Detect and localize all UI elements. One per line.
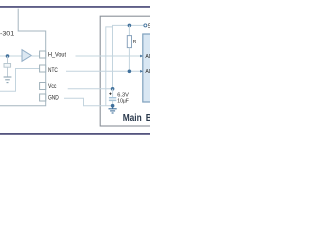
microcontroller U2 — [143, 34, 155, 102]
wire: op-amp input — [0, 55, 22, 57]
svg-text:Main: Main — [123, 113, 142, 124]
svg-text:NTC: NTC — [48, 68, 58, 74]
cap plate top — [109, 97, 116, 98]
svg-text:5V: 5V — [148, 23, 150, 30]
op-amp U1 triangle — [22, 50, 31, 62]
svg-text:R: R — [133, 39, 137, 45]
svg-text:AD: AD — [145, 54, 150, 60]
svg-text:H_Vout: H_Vout — [48, 53, 66, 59]
5V terminal circle — [144, 24, 147, 27]
sensor module box P-301 — [0, 9, 46, 106]
svg-text:10µF: 10µF — [117, 98, 129, 104]
svg-text:P-301: P-301 — [0, 30, 15, 37]
bottom horizontal rule — [0, 133, 150, 135]
pin box Vcc — [40, 83, 46, 90]
wire 5V horizontal — [113, 25, 144, 88]
wire down from node — [7, 56, 9, 64]
junction dot R/NTC — [128, 70, 132, 74]
ground (module) — [4, 77, 12, 83]
wire 5V rail top — [106, 27, 113, 106]
capacitor C1 polarized — [112, 89, 114, 97]
capacitor C (box) — [4, 64, 11, 68]
svg-text:GND: GND — [48, 96, 59, 102]
cap plate bottom — [109, 100, 116, 102]
arrow into ADC pin 1 — [140, 55, 143, 58]
junction dot Vcc/rail — [111, 87, 115, 91]
resistor R — [127, 36, 131, 48]
plus sign — [109, 93, 111, 95]
junction dot GND/cap — [111, 104, 115, 108]
wire: NTC internal — [0, 69, 40, 92]
arrow into ADC pin 2 — [140, 70, 143, 73]
wire R to NTC line — [128, 48, 130, 72]
svg-text:Vcc: Vcc — [48, 84, 56, 90]
wire Vcc to rail — [68, 88, 113, 90]
svg-text:Board: Board — [146, 113, 150, 124]
pin box GND — [40, 94, 46, 101]
svg-text:6.3V: 6.3V — [117, 92, 129, 98]
junction dot 5V/R — [128, 24, 132, 28]
pin box H_Vout — [40, 51, 46, 58]
ground (board) — [109, 106, 117, 113]
wire NTC to ADC — [66, 70, 141, 72]
wire: op-amp output to pin — [31, 55, 39, 57]
wire to ground — [7, 67, 9, 76]
wire GND step — [64, 98, 113, 105]
pin box NTC — [40, 65, 46, 72]
wire H_Vout to ADC — [76, 55, 142, 57]
top horizontal rule — [0, 6, 150, 8]
node junction dot — [6, 54, 10, 58]
wire 5V to R — [128, 25, 130, 35]
Main Board box — [100, 16, 160, 126]
svg-text:AD: AD — [145, 69, 150, 75]
